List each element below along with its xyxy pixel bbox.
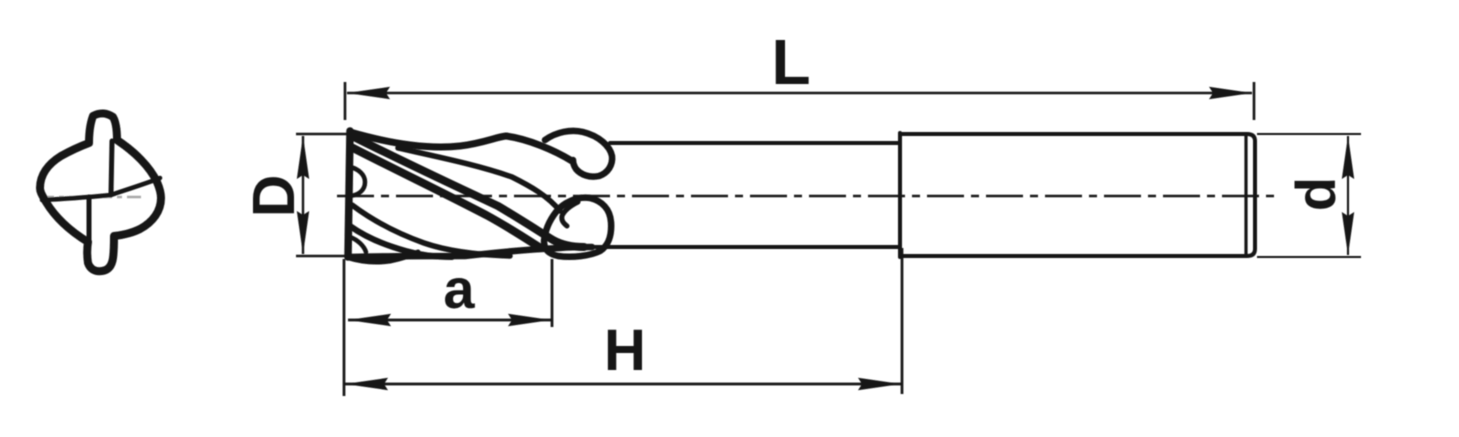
- svg-text:d: d: [1284, 177, 1347, 211]
- svg-text:L: L: [771, 26, 810, 98]
- svg-text:a: a: [443, 257, 475, 320]
- svg-text:D: D: [241, 175, 307, 218]
- svg-text:H: H: [604, 318, 646, 383]
